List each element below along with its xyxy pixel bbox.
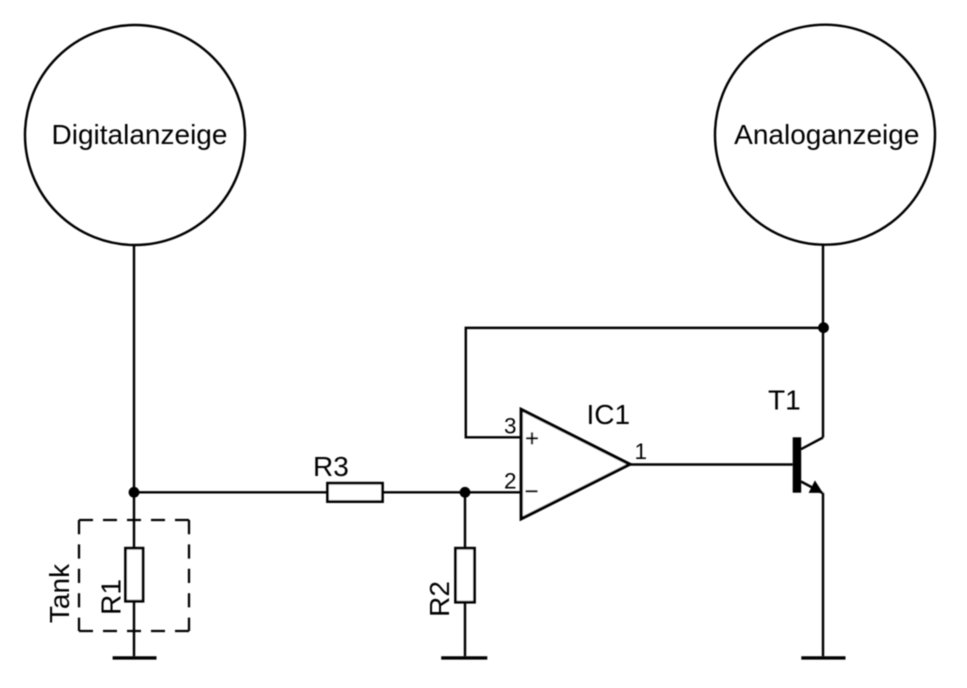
- svg-text:1: 1: [635, 439, 648, 464]
- svg-text:Tank: Tank: [44, 563, 75, 623]
- svg-text:3: 3: [504, 414, 517, 439]
- svg-text:2: 2: [504, 469, 517, 494]
- svg-text:R1: R1: [96, 579, 127, 615]
- svg-text:T1: T1: [768, 385, 801, 416]
- svg-text:R2: R2: [424, 581, 455, 617]
- svg-text:IC1: IC1: [587, 399, 631, 430]
- svg-text:Digitalanzeige: Digitalanzeige: [52, 119, 228, 150]
- svg-text:Analoganzeige: Analoganzeige: [734, 119, 919, 150]
- svg-text:R3: R3: [313, 451, 349, 482]
